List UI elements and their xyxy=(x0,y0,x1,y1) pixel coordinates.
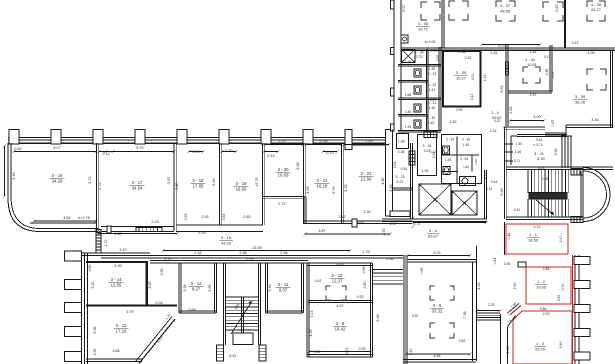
svg-text:5.35: 5.35 xyxy=(541,177,548,181)
wall partition 3-20/3-21 xyxy=(303,143,305,224)
wall window right of 3-41 xyxy=(561,136,563,168)
svg-text:3 - 14: 3 - 14 xyxy=(111,277,123,282)
svg-text:8.90: 8.90 xyxy=(537,157,544,161)
svg-text:3 - 26: 3 - 26 xyxy=(460,157,468,161)
elevator shaft small xyxy=(402,50,416,63)
svg-text:1.45: 1.45 xyxy=(428,121,435,125)
room 3-40 walls xyxy=(549,45,551,92)
svg-text:2.99: 2.99 xyxy=(456,108,463,112)
svg-text:b=2.76: b=2.76 xyxy=(78,216,89,220)
wall 3-39 bottom xyxy=(566,124,613,126)
svg-text:2.88: 2.88 xyxy=(543,267,550,271)
svg-text:2.46: 2.46 xyxy=(506,347,510,354)
svg-text:1.68: 1.68 xyxy=(405,93,412,97)
svg-text:3 - 39: 3 - 39 xyxy=(575,94,586,99)
svg-text:3 - 21: 3 - 21 xyxy=(317,178,329,183)
svg-text:4.63: 4.63 xyxy=(306,186,310,193)
svg-text:2.61: 2.61 xyxy=(431,49,438,53)
svg-text:10.61: 10.61 xyxy=(527,63,537,67)
svg-text:0.13: 0.13 xyxy=(572,41,579,45)
svg-text:3 - 35: 3 - 35 xyxy=(456,70,467,75)
svg-text:34.29: 34.29 xyxy=(52,178,63,183)
svg-text:0.13: 0.13 xyxy=(310,311,314,318)
svg-text:1 - 3: 1 - 3 xyxy=(536,341,545,346)
svg-text:3 - 33: 3 - 33 xyxy=(428,72,437,76)
svg-text:0.13: 0.13 xyxy=(544,55,550,59)
svg-text:0.56: 0.56 xyxy=(88,265,92,272)
svg-text:0.98: 0.98 xyxy=(160,269,164,276)
wall 3-37/3-38 xyxy=(564,0,566,48)
svg-text:3 - 5: 3 - 5 xyxy=(433,303,442,308)
svg-text:4.25: 4.25 xyxy=(309,329,313,336)
skylight dashed 3-36 b xyxy=(449,1,468,20)
wall diagonal 1-3 xyxy=(510,306,522,316)
wall corridor 3-15 bottom xyxy=(101,255,403,257)
svg-text:3.71: 3.71 xyxy=(514,159,520,163)
wall connector left wing to right xyxy=(392,130,394,142)
svg-text:1.55: 1.55 xyxy=(516,142,522,146)
svg-text:2.75: 2.75 xyxy=(416,55,423,59)
wc block 2 walls xyxy=(442,135,482,184)
window striped corridor 2.29 xyxy=(136,228,162,232)
dimension line 2.49 3-22 xyxy=(344,144,389,146)
svg-text:v-3.74: v-3.74 xyxy=(533,143,542,147)
wc 2 fixtures xyxy=(443,146,450,154)
svg-text:1.75: 1.75 xyxy=(362,250,369,254)
svg-text:0.14: 0.14 xyxy=(267,154,274,158)
svg-text:9.29: 9.29 xyxy=(198,231,205,235)
room 3-41 walls xyxy=(510,136,512,165)
svg-text:0.42: 0.42 xyxy=(315,279,322,283)
wall stub between 1-1 1-2 xyxy=(518,262,526,267)
svg-text:4.13: 4.13 xyxy=(483,75,487,82)
svg-text:1.38: 1.38 xyxy=(398,140,405,144)
svg-text:5.60: 5.60 xyxy=(555,4,559,11)
svg-text:4.57: 4.57 xyxy=(336,304,343,308)
room 3-10 walls xyxy=(306,263,308,357)
svg-text:2.90: 2.90 xyxy=(513,283,517,290)
svg-text:33.32: 33.32 xyxy=(432,308,443,313)
room 3-24 walls xyxy=(418,135,437,176)
wall diagonal 3-13 xyxy=(139,319,175,364)
svg-text:0.07: 0.07 xyxy=(357,220,364,224)
room 3-35 walls xyxy=(443,51,481,107)
staircase arrow right xyxy=(536,200,554,215)
svg-text:5.73: 5.73 xyxy=(88,176,92,183)
svg-text:5.25: 5.25 xyxy=(344,184,348,191)
wall left exterior lower building xyxy=(81,253,83,364)
svg-text:2.58: 2.58 xyxy=(280,251,287,255)
svg-text:1.45: 1.45 xyxy=(429,106,436,110)
room 3-23 walls xyxy=(410,143,412,219)
svg-text:3 - 29: 3 - 29 xyxy=(446,138,454,142)
svg-text:0.64: 0.64 xyxy=(493,258,497,265)
wall right end of left wing xyxy=(386,130,393,217)
svg-text:25.25: 25.25 xyxy=(535,346,546,351)
fixture box room 3-36 xyxy=(401,35,408,43)
svg-text:3 - 32: 3 - 32 xyxy=(428,83,437,87)
wall right edge right wing xyxy=(610,50,612,128)
svg-text:4.49: 4.49 xyxy=(336,262,343,266)
wall stub below 3-17 xyxy=(96,230,101,233)
svg-text:5.87: 5.87 xyxy=(167,176,171,183)
wall stubs 3-41 left xyxy=(504,143,513,145)
svg-text:5.57: 5.57 xyxy=(402,4,406,11)
svg-text:34.54: 34.54 xyxy=(132,185,143,190)
svg-text:3 - 30: 3 - 30 xyxy=(427,116,436,120)
svg-text:2.96: 2.96 xyxy=(545,69,549,76)
wall corridor 3-4 left vertical xyxy=(505,45,507,126)
room 3-11 walls xyxy=(265,263,267,313)
svg-text:36.26: 36.26 xyxy=(575,99,586,104)
elevator shaft 2 xyxy=(452,191,477,215)
svg-text:1.45: 1.45 xyxy=(405,60,412,64)
svg-text:2.92: 2.92 xyxy=(543,312,550,316)
dimension line left exterior 4.49 xyxy=(4,146,6,196)
svg-text:3 - 4: 3 - 4 xyxy=(429,228,438,233)
window bumps left of right wing xyxy=(391,0,395,9)
svg-text:6.51: 6.51 xyxy=(229,354,236,358)
svg-text:9.44: 9.44 xyxy=(376,314,380,321)
room 3-12 walls xyxy=(178,263,180,313)
svg-text:0.20: 0.20 xyxy=(225,149,232,153)
svg-text:0.50: 0.50 xyxy=(314,350,321,354)
dimension line 2.25 steps xyxy=(477,310,500,312)
svg-text:0.54: 0.54 xyxy=(401,167,408,171)
svg-text:2.80: 2.80 xyxy=(363,281,367,288)
svg-text:3 - 24: 3 - 24 xyxy=(423,144,432,148)
dimension line 8.63 xyxy=(482,44,540,46)
skylight dashed room 3-10 xyxy=(326,286,346,300)
wall partition 3-16/3-17 xyxy=(96,143,98,231)
svg-text:2.83: 2.83 xyxy=(243,215,250,219)
svg-text:1.45: 1.45 xyxy=(463,143,469,147)
svg-text:3 - 13: 3 - 13 xyxy=(116,323,128,328)
room 3-9 bottom wall xyxy=(307,354,373,356)
svg-text:19.42: 19.42 xyxy=(335,326,346,331)
svg-text:0.25: 0.25 xyxy=(359,347,366,351)
wall partition 3-18/3-19 xyxy=(219,143,221,225)
svg-text:2.04: 2.04 xyxy=(155,301,162,305)
svg-text:4.64: 4.64 xyxy=(433,354,440,358)
staircase arrow xyxy=(231,301,252,334)
svg-text:4.23: 4.23 xyxy=(534,225,541,229)
svg-text:1.24: 1.24 xyxy=(489,129,496,133)
svg-text:3 - 23: 3 - 23 xyxy=(395,175,404,179)
stair landing bar xyxy=(529,193,567,200)
svg-text:3 - 41: 3 - 41 xyxy=(534,152,544,156)
svg-text:4.80: 4.80 xyxy=(381,177,385,184)
svg-text:5.79: 5.79 xyxy=(136,146,143,150)
svg-text:1 - 2: 1 - 2 xyxy=(537,279,546,284)
wall below top rooms xyxy=(401,47,615,49)
window small box 3-17 bottom xyxy=(107,226,111,233)
svg-text:0.92: 0.92 xyxy=(93,349,97,356)
dimension line 2.72 3-20 xyxy=(265,144,303,146)
skylight dashed 3-37 a xyxy=(496,1,515,21)
svg-text:3 - 4: 3 - 4 xyxy=(491,111,499,115)
svg-text:2.72: 2.72 xyxy=(278,202,285,206)
svg-text:2.49: 2.49 xyxy=(365,139,372,143)
skylight dashed 3-5 a xyxy=(430,286,454,300)
steps east of 3-5 xyxy=(477,312,500,314)
svg-text:4.54: 4.54 xyxy=(63,216,70,220)
dimension line 3.87 corridor xyxy=(305,233,390,235)
svg-text:3.43: 3.43 xyxy=(268,284,272,291)
svg-text:0.38: 0.38 xyxy=(398,150,405,154)
svg-text:4.49: 4.49 xyxy=(12,172,16,179)
dimension line 9.29 xyxy=(98,233,177,235)
svg-text:2.66: 2.66 xyxy=(239,251,246,255)
wc fixtures xyxy=(414,69,421,77)
svg-text:3 - 40: 3 - 40 xyxy=(525,58,535,62)
wall stub below stair right xyxy=(259,345,266,361)
svg-text:x2.76: x2.76 xyxy=(255,177,259,186)
svg-text:1.45: 1.45 xyxy=(405,110,412,114)
svg-text:5.76: 5.76 xyxy=(332,186,336,193)
svg-text:2.58: 2.58 xyxy=(554,149,558,156)
svg-text:2.53: 2.53 xyxy=(382,228,386,235)
svg-text:3 - 36: 3 - 36 xyxy=(418,21,429,26)
wall right of stair top xyxy=(583,166,613,168)
wall 3-36/3-37 xyxy=(441,0,443,48)
svg-text:2.38: 2.38 xyxy=(114,232,121,236)
svg-text:0.92: 0.92 xyxy=(432,152,436,158)
svg-text:5.80: 5.80 xyxy=(175,182,179,189)
svg-text:10.27: 10.27 xyxy=(456,75,467,80)
svg-text:3.38: 3.38 xyxy=(183,284,187,291)
svg-text:1 - 1: 1 - 1 xyxy=(529,232,538,237)
room 3-5 walls xyxy=(403,255,408,364)
svg-text:0.37: 0.37 xyxy=(389,222,396,226)
svg-text:0.56: 0.56 xyxy=(420,268,424,275)
svg-text:4.52: 4.52 xyxy=(449,120,456,124)
svg-text:3.44: 3.44 xyxy=(529,50,536,54)
svg-text:2.29: 2.29 xyxy=(151,220,158,224)
dimension line 9.71b xyxy=(412,218,414,227)
dimension line room 3-9 bottom xyxy=(309,351,371,353)
svg-text:1.41: 1.41 xyxy=(429,88,436,92)
svg-text:1.69: 1.69 xyxy=(504,262,511,266)
wall corridor below elevators xyxy=(382,218,487,220)
svg-text:3.82: 3.82 xyxy=(148,281,152,288)
room 3-14 walls xyxy=(86,261,148,263)
svg-text:4.54: 4.54 xyxy=(393,162,397,169)
svg-text:4.77: 4.77 xyxy=(484,173,488,180)
svg-text:3.97: 3.97 xyxy=(424,149,431,153)
svg-text:1.45: 1.45 xyxy=(429,67,436,71)
svg-text:2.72: 2.72 xyxy=(278,139,285,143)
wall right exterior lower red line xyxy=(572,255,574,364)
skylight dashed 3-36 a xyxy=(421,2,440,20)
dimension line 4.00 corridor xyxy=(510,120,544,122)
svg-text:3 - 22: 3 - 22 xyxy=(361,171,373,176)
svg-text:0.35: 0.35 xyxy=(557,295,561,301)
svg-text:0.13: 0.13 xyxy=(345,348,349,355)
svg-text:1.72: 1.72 xyxy=(104,239,108,246)
svg-text:16.50: 16.50 xyxy=(236,186,247,191)
svg-text:10.83: 10.83 xyxy=(278,172,289,177)
dimension line 6.07 top xyxy=(14,151,96,153)
skylight dashed 3-38 xyxy=(587,1,605,21)
svg-text:2.93: 2.93 xyxy=(201,215,208,219)
svg-text:49.58: 49.58 xyxy=(500,9,511,14)
wc block walls xyxy=(398,64,441,66)
svg-text:69.67: 69.67 xyxy=(492,116,502,120)
wall top band of left wing xyxy=(8,137,390,139)
wall south of 3-39 long xyxy=(504,126,546,128)
svg-text:0.41: 0.41 xyxy=(514,208,521,212)
svg-text:5.79: 5.79 xyxy=(126,310,133,314)
svg-text:3.20: 3.20 xyxy=(91,281,95,288)
skylight dashed 3-37 b xyxy=(543,2,563,21)
svg-text:9.27: 9.27 xyxy=(396,180,403,184)
svg-text:3 - 20: 3 - 20 xyxy=(278,167,290,172)
stairwell right walls xyxy=(506,166,583,168)
dimension line 5.26 3-5 xyxy=(408,255,470,257)
stair landing box xyxy=(233,333,253,345)
svg-text:1.46: 1.46 xyxy=(515,150,521,154)
svg-text:4.00: 4.00 xyxy=(587,51,594,55)
room 1-2 red xyxy=(526,267,571,304)
svg-text:4.00: 4.00 xyxy=(533,115,540,119)
svg-text:16.18: 16.18 xyxy=(317,183,328,188)
dimension tick lines xyxy=(99,151,113,153)
svg-text:0.56: 0.56 xyxy=(362,267,366,274)
svg-text:1.36: 1.36 xyxy=(422,169,429,173)
window band extra line xyxy=(352,144,386,146)
svg-text:3 - 16: 3 - 16 xyxy=(52,173,64,178)
svg-text:3.68: 3.68 xyxy=(112,349,119,353)
svg-text:3.44: 3.44 xyxy=(536,138,543,142)
svg-text:0.35: 0.35 xyxy=(184,214,188,221)
svg-text:3 - 11: 3 - 11 xyxy=(278,282,289,287)
svg-text:3 - 37: 3 - 37 xyxy=(500,3,511,8)
svg-text:0.13: 0.13 xyxy=(102,152,109,156)
svg-text:0.68: 0.68 xyxy=(189,308,196,312)
window pillars left lower xyxy=(65,251,82,261)
svg-text:24.27: 24.27 xyxy=(591,7,602,12)
svg-text:10.65: 10.65 xyxy=(536,284,547,289)
svg-text:2.57: 2.57 xyxy=(529,93,536,97)
steps west of 3-5 xyxy=(373,269,403,271)
elevator shaft big xyxy=(419,184,451,215)
svg-text:0.57: 0.57 xyxy=(551,120,555,127)
svg-text:0.46: 0.46 xyxy=(507,233,511,240)
svg-text:3.44: 3.44 xyxy=(491,180,498,184)
svg-text:2.30: 2.30 xyxy=(363,210,370,214)
svg-text:3.04: 3.04 xyxy=(551,72,555,79)
svg-text:5.40: 5.40 xyxy=(559,342,563,349)
svg-text:5.64: 5.64 xyxy=(500,85,504,92)
door hatch below wc xyxy=(424,132,437,138)
wall room 3-20 side extra xyxy=(303,197,305,225)
svg-text:3.65: 3.65 xyxy=(208,284,212,291)
svg-text:9.28: 9.28 xyxy=(500,188,504,195)
room 3-13 bottom wall xyxy=(86,358,142,360)
svg-text:7.38: 7.38 xyxy=(463,311,467,318)
svg-text:1.80: 1.80 xyxy=(463,165,469,169)
dimension line 4.54 bottom 3-16 xyxy=(34,220,96,222)
svg-text:5.75: 5.75 xyxy=(98,182,102,189)
wall lower building top xyxy=(82,252,150,254)
svg-text:3 - 28: 3 - 28 xyxy=(462,138,470,142)
svg-text:3 - 19: 3 - 19 xyxy=(236,181,248,186)
svg-text:0.52: 0.52 xyxy=(459,339,466,343)
svg-text:2.25: 2.25 xyxy=(488,303,495,307)
stair hatch block bottom xyxy=(571,217,583,223)
svg-text:1.45: 1.45 xyxy=(405,125,412,129)
wall jog corridor right end xyxy=(390,211,410,217)
svg-text:5.26: 5.26 xyxy=(433,251,440,255)
wall top rooms 3-12 stair 3-11 xyxy=(150,260,308,262)
svg-text:3 - 17: 3 - 17 xyxy=(132,180,144,185)
svg-text:0.13: 0.13 xyxy=(192,150,199,154)
dimension line 5.79 top xyxy=(106,151,174,153)
dimension line 9.71 xyxy=(413,222,486,224)
svg-text:16.72: 16.72 xyxy=(418,26,429,31)
svg-text:3 - 9: 3 - 9 xyxy=(336,321,345,326)
svg-text:18.50: 18.50 xyxy=(528,237,539,242)
svg-text:9.27: 9.27 xyxy=(192,286,201,291)
svg-text:43.26: 43.26 xyxy=(221,240,232,245)
svg-text:0.33: 0.33 xyxy=(357,295,364,299)
svg-text:3.87: 3.87 xyxy=(318,229,325,233)
svg-text:3 - 18: 3 - 18 xyxy=(193,178,205,183)
svg-text:12.99: 12.99 xyxy=(361,176,372,181)
svg-text:4.45: 4.45 xyxy=(591,118,598,122)
svg-text:69.67: 69.67 xyxy=(428,233,439,238)
walls path to 1-3 xyxy=(500,314,502,364)
wall bottom rooms 3-17 3-18 3-19 xyxy=(101,226,174,228)
svg-text:6.07: 6.07 xyxy=(53,146,60,150)
wall left exterior right wing xyxy=(393,0,395,131)
svg-text:4.01: 4.01 xyxy=(471,74,475,81)
wall bottom room 3-20 low xyxy=(263,196,305,198)
window pillars right lower xyxy=(574,257,590,265)
skylight dashed 3-39 xyxy=(587,69,606,90)
svg-text:1.02: 1.02 xyxy=(474,159,478,165)
skylight dashed 3-5 b xyxy=(430,323,454,338)
svg-text:12.56: 12.56 xyxy=(111,282,122,287)
svg-text:4.22: 4.22 xyxy=(477,282,481,289)
svg-text:1.81: 1.81 xyxy=(490,51,497,55)
svg-text:3 - 15: 3 - 15 xyxy=(221,235,232,240)
svg-text:2.06: 2.06 xyxy=(386,257,393,261)
svg-text:0.37: 0.37 xyxy=(246,258,253,262)
room 1-1 red xyxy=(504,222,506,255)
svg-text:b=2.08: b=2.08 xyxy=(425,40,436,44)
svg-text:2.62: 2.62 xyxy=(509,106,513,113)
svg-text:0.22: 0.22 xyxy=(465,56,472,60)
stairwell curved wall xyxy=(583,168,610,222)
svg-text:9.37: 9.37 xyxy=(279,287,288,292)
skylight dashed 3-40 xyxy=(523,67,540,83)
wall stub below stair left xyxy=(217,345,224,361)
svg-text:0.77: 0.77 xyxy=(164,258,171,262)
wall right exterior lower xyxy=(574,255,576,364)
room 1-38 box xyxy=(397,134,409,149)
wall corridor left lower xyxy=(82,252,150,254)
wall partition 3-19/3-20 xyxy=(262,143,264,225)
staircase steps lower building xyxy=(226,296,259,298)
svg-text:3.92: 3.92 xyxy=(114,264,121,268)
svg-text:17.85: 17.85 xyxy=(193,183,204,188)
svg-text:3 - 10: 3 - 10 xyxy=(332,273,344,278)
svg-text:2.47: 2.47 xyxy=(559,236,563,243)
svg-text:0.14: 0.14 xyxy=(486,187,492,191)
svg-text:5.83: 5.83 xyxy=(212,178,216,185)
